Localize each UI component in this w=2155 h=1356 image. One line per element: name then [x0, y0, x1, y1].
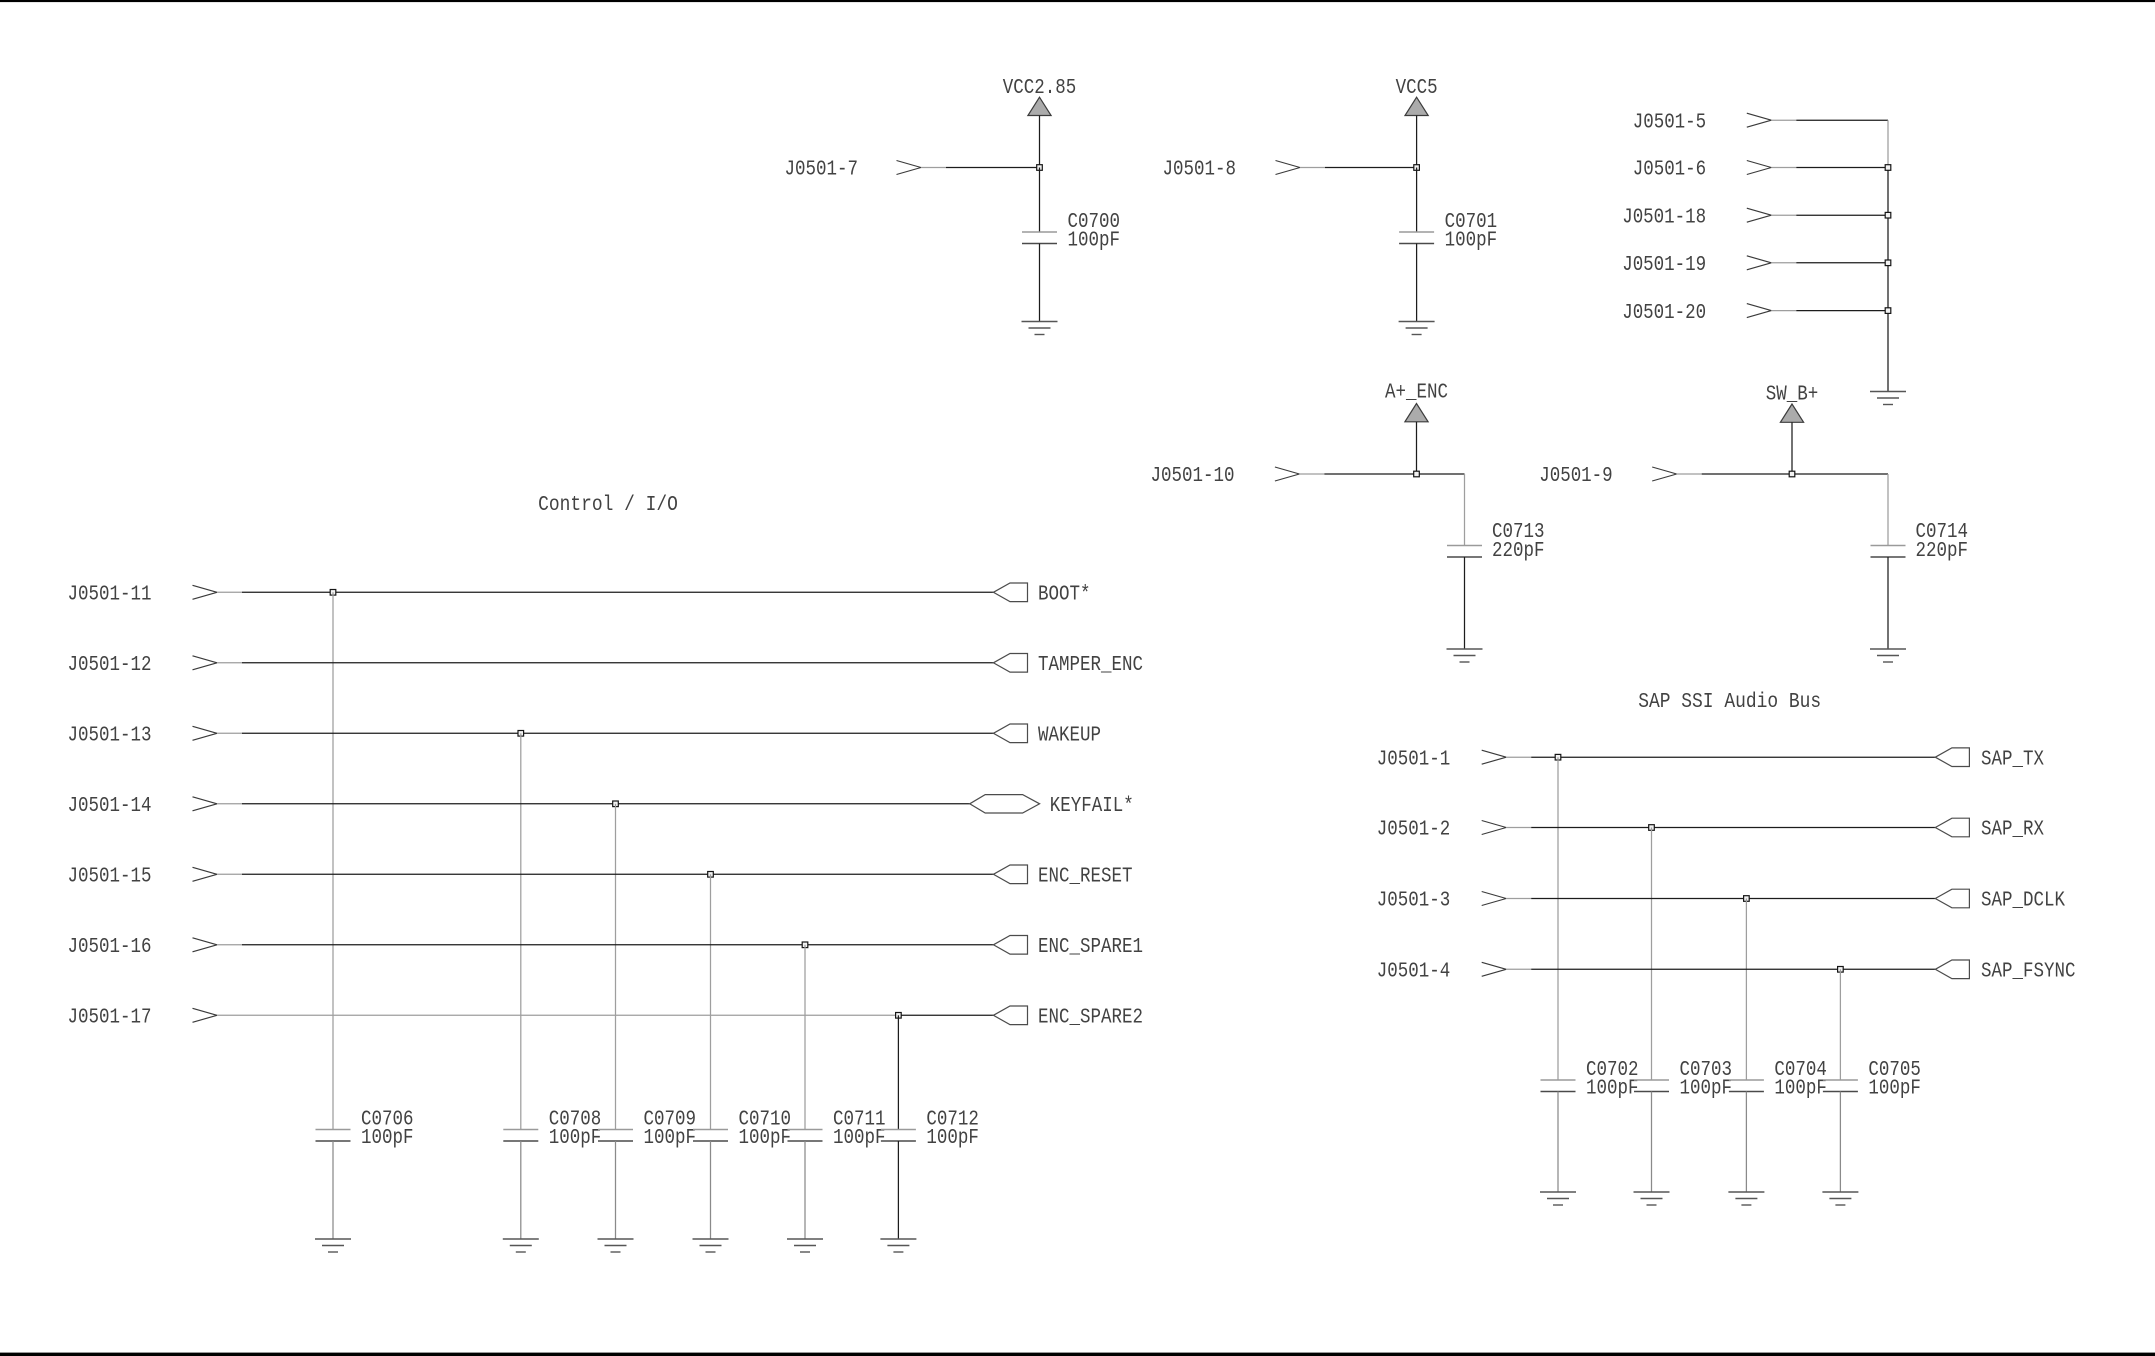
wire J0501-5 to ground bus — [1771, 119, 1888, 121]
node SAP_TX junction — [1555, 754, 1561, 760]
pin J0501-18 — [1622, 206, 1771, 229]
wire J0501-18 to ground bus — [1771, 214, 1888, 216]
svg-text:J0501-8: J0501-8 — [1163, 159, 1237, 182]
svg-text:J0501-15: J0501-15 — [68, 866, 152, 889]
capacitor C0705 — [1823, 1059, 1921, 1101]
wire J0501-14 to KEYFAIL* flag — [217, 803, 970, 805]
wire J0501-19 to ground bus — [1771, 262, 1888, 264]
wire junction to ENC_SPARE2 flag — [898, 1014, 993, 1016]
wire tap down (gray) x=1558.0 — [1557, 757, 1559, 1080]
svg-text:SAP_RX: SAP_RX — [1981, 819, 2044, 842]
pin J0501-16 — [68, 936, 218, 959]
node SAP_DCLK junction — [1744, 896, 1750, 902]
svg-text:J0501-3: J0501-3 — [1377, 890, 1451, 913]
node J0501-6 junction — [1885, 165, 1891, 171]
wire tap down (gray) x=1746.4 — [1745, 899, 1747, 1081]
svg-text:J0501-4: J0501-4 — [1377, 961, 1451, 984]
capacitor C0714 — [1871, 521, 1969, 563]
wire SW_B+ stem — [1791, 422, 1793, 474]
node VCC5 junction — [1414, 165, 1420, 171]
sheet bottom border — [0, 1353, 2155, 1356]
svg-text:J0501-14: J0501-14 — [68, 795, 152, 818]
svg-text:SAP_FSYNC: SAP_FSYNC — [1981, 961, 2076, 984]
pin J0501-11 — [68, 584, 218, 607]
capacitor C0712 — [881, 1109, 979, 1151]
wire J0501-17 to junction (gray) — [217, 1014, 898, 1016]
ground — [1399, 322, 1435, 335]
wire C0710 to ground — [710, 1141, 712, 1239]
wire J0501-9 to bend — [1677, 473, 1888, 475]
pin J0501-17 — [68, 1007, 218, 1030]
pin J0501-3 — [1377, 890, 1506, 913]
ground — [1022, 322, 1058, 335]
ground — [315, 1239, 351, 1252]
wire J0501-11 to BOOT* flag — [217, 591, 993, 593]
power symbol A+_ENC — [1385, 382, 1448, 422]
svg-text:J0501-2: J0501-2 — [1377, 819, 1451, 842]
svg-text:A+_ENC: A+_ENC — [1385, 382, 1448, 405]
ground — [1634, 1192, 1670, 1205]
wire J0501-15 to ENC_RESET flag — [217, 873, 993, 875]
wire tap down (gray) x=1840.4 — [1839, 969, 1841, 1080]
svg-text:J0501-10: J0501-10 — [1151, 465, 1235, 488]
svg-text:100pF: 100pF — [1680, 1078, 1733, 1101]
capacitor C0713 — [1447, 521, 1545, 563]
capacitor C0703 — [1634, 1059, 1732, 1101]
svg-text:100pF: 100pF — [739, 1127, 792, 1150]
node J0501-18 junction — [1885, 212, 1891, 218]
pin J0501-10 — [1151, 465, 1300, 488]
svg-text:100pF: 100pF — [833, 1127, 886, 1150]
wire J0501-8 to VCC5 node — [1300, 167, 1417, 169]
svg-text:KEYFAIL*: KEYFAIL* — [1050, 795, 1134, 818]
net flag ENC_SPARE2 — [993, 1006, 1143, 1030]
node SAP_FSYNC junction — [1838, 967, 1844, 973]
wire J0501-10 to bend — [1299, 473, 1464, 475]
wire C0712 to ground — [897, 1141, 899, 1239]
net flag ENC_SPARE1 — [993, 936, 1143, 960]
ground — [598, 1239, 634, 1252]
wire J0501-2 to SAP_RX flag — [1506, 827, 1935, 829]
node J0501-19 junction — [1885, 260, 1891, 266]
svg-text:100pF: 100pF — [926, 1127, 979, 1150]
svg-text:100pF: 100pF — [1068, 230, 1121, 253]
ground — [1822, 1192, 1858, 1205]
node SW_B+ junction — [1789, 471, 1795, 477]
capacitor C0700 — [1022, 211, 1120, 253]
net flag SAP_DCLK — [1935, 889, 2065, 913]
wire VCC5 stem — [1416, 116, 1418, 168]
pin J0501-7 — [785, 159, 922, 182]
wire J0501-16 to ENC_SPARE1 flag — [217, 944, 993, 946]
wire C0714 to ground — [1887, 557, 1889, 649]
capacitor C0708 — [503, 1109, 601, 1151]
wire tap down (gray) x=520.8 — [520, 733, 522, 1129]
pin J0501-1 — [1377, 748, 1506, 771]
svg-text:ENC_RESET: ENC_RESET — [1038, 866, 1133, 889]
svg-text:SAP_TX: SAP_TX — [1981, 748, 2044, 771]
wire J0501-4 to SAP_FSYNC flag — [1506, 968, 1935, 970]
capacitor C0702 — [1541, 1059, 1639, 1101]
svg-text:100pF: 100pF — [1445, 230, 1498, 253]
capacitor C0710 — [693, 1109, 791, 1151]
pin J0501-20 — [1622, 302, 1771, 325]
wire tap down (gray) x=805.0 — [804, 945, 806, 1130]
wire tap down (gray) x=1651.5 — [1651, 828, 1653, 1081]
pin J0501-4 — [1377, 961, 1506, 984]
svg-text:100pF: 100pF — [1868, 1078, 1921, 1101]
wire C0703 to ground — [1651, 1092, 1653, 1193]
node ENC_SPARE2 junction — [896, 1013, 902, 1019]
wire VCC2.85 stem — [1039, 116, 1041, 168]
net flag ENC_RESET — [993, 865, 1132, 889]
svg-text:220pF: 220pF — [1492, 540, 1545, 563]
wire tap down x=898.4 — [897, 1015, 899, 1129]
svg-text:100pF: 100pF — [644, 1127, 697, 1150]
node ENC_RESET junction — [708, 872, 714, 878]
wire node to C0700 — [1039, 168, 1041, 233]
net flag SAP_RX — [1935, 818, 2044, 842]
svg-text:220pF: 220pF — [1916, 540, 1969, 563]
svg-text:J0501-12: J0501-12 — [68, 654, 152, 677]
wire A+_ENC stem — [1416, 422, 1418, 474]
pin J0501-15 — [68, 866, 218, 889]
power symbol VCC2.85 — [1003, 77, 1077, 116]
svg-text:J0501-5: J0501-5 — [1633, 111, 1707, 134]
svg-text:J0501-17: J0501-17 — [68, 1007, 152, 1030]
ground — [503, 1239, 539, 1252]
node BOOT* junction — [330, 590, 336, 596]
ground — [1447, 649, 1483, 662]
wire tap down (gray) x=615.5 — [615, 804, 617, 1130]
wire tap down (gray) x=333.0 — [332, 592, 334, 1129]
net flag TAMPER_ENC — [993, 654, 1143, 678]
node ENC_SPARE1 junction — [802, 942, 808, 948]
net flag WAKEUP — [993, 724, 1101, 748]
wire C0701 to ground — [1416, 244, 1418, 322]
svg-text:BOOT*: BOOT* — [1038, 584, 1091, 607]
pin J0501-13 — [68, 725, 218, 748]
svg-text:ENC_SPARE2: ENC_SPARE2 — [1038, 1007, 1143, 1030]
svg-text:J0501-19: J0501-19 — [1622, 254, 1706, 277]
wire J0501-12 to TAMPER_ENC flag — [217, 662, 993, 664]
svg-text:J0501-16: J0501-16 — [68, 936, 152, 959]
net flag SAP_TX — [1935, 748, 2044, 772]
svg-text:SW_B+: SW_B+ — [1766, 383, 1819, 406]
wire ground bus vertical top (gray) — [1887, 120, 1889, 167]
capacitor C0711 — [788, 1109, 886, 1151]
pin J0501-14 — [68, 795, 218, 818]
wire J0501-6 to ground bus — [1771, 167, 1888, 169]
ground — [1540, 1192, 1576, 1205]
sheet top border — [0, 0, 2155, 2]
ground — [693, 1239, 729, 1252]
wire J0501-3 to SAP_DCLK flag — [1506, 898, 1935, 900]
wire C0702 to ground — [1557, 1092, 1559, 1193]
wire C0700 to ground — [1039, 244, 1041, 322]
wire node to C0701 — [1416, 168, 1418, 233]
capacitor C0709 — [598, 1109, 696, 1151]
svg-text:J0501-13: J0501-13 — [68, 725, 152, 748]
ground — [1870, 392, 1906, 405]
power symbol VCC5 — [1396, 77, 1438, 116]
capacitor C0704 — [1729, 1059, 1827, 1101]
pin J0501-9 — [1539, 465, 1677, 488]
svg-text:J0501-1: J0501-1 — [1377, 748, 1451, 771]
net flag SAP_FSYNC — [1935, 960, 2075, 984]
svg-text:ENC_SPARE1: ENC_SPARE1 — [1038, 936, 1143, 959]
ground — [1870, 649, 1906, 662]
svg-text:100pF: 100pF — [361, 1127, 414, 1150]
capacitor C0706 — [316, 1109, 414, 1151]
node WAKEUP junction — [518, 731, 524, 737]
svg-text:SAP_DCLK: SAP_DCLK — [1981, 890, 2065, 913]
wire C0708 to ground — [520, 1141, 522, 1239]
ground — [1728, 1192, 1764, 1205]
node J0501-20 junction — [1885, 308, 1891, 314]
svg-text:J0501-9: J0501-9 — [1539, 465, 1613, 488]
power symbol SW_B+ — [1766, 383, 1819, 422]
wire C0706 to ground — [332, 1141, 334, 1239]
node KEYFAIL* junction — [613, 801, 619, 807]
svg-text:J0501-11: J0501-11 — [68, 584, 152, 607]
pin J0501-2 — [1377, 819, 1506, 842]
svg-text:J0501-6: J0501-6 — [1633, 159, 1707, 182]
pin J0501-5 — [1633, 111, 1772, 134]
svg-text:100pF: 100pF — [1774, 1078, 1827, 1101]
net flag BOOT* — [993, 583, 1090, 607]
ground — [880, 1239, 916, 1252]
svg-text:J0501-18: J0501-18 — [1622, 206, 1706, 229]
pin J0501-8 — [1163, 159, 1301, 182]
pin J0501-19 — [1622, 254, 1771, 277]
wire C0713 to ground — [1464, 557, 1466, 649]
svg-text:TAMPER_ENC: TAMPER_ENC — [1038, 654, 1143, 677]
ground — [787, 1239, 823, 1252]
net flag KEYFAIL* — [970, 795, 1134, 818]
svg-text:WAKEUP: WAKEUP — [1038, 725, 1101, 748]
wire J0501-7 to VCC2.85 node — [921, 167, 1040, 169]
svg-text:100pF: 100pF — [1586, 1078, 1639, 1101]
wire bend down to C0713 (gray) — [1464, 474, 1466, 546]
svg-text:100pF: 100pF — [549, 1127, 602, 1150]
node A+_ENC junction — [1414, 471, 1420, 477]
svg-text:SAP SSI Audio Bus: SAP SSI Audio Bus — [1638, 691, 1821, 714]
wire J0501-20 to ground bus — [1771, 310, 1888, 312]
pin J0501-12 — [68, 654, 218, 677]
wire bend down to C0714 (gray) — [1887, 474, 1889, 546]
wire J0501-13 to WAKEUP flag — [217, 732, 993, 734]
wire C0704 to ground — [1745, 1092, 1747, 1193]
svg-text:J0501-7: J0501-7 — [785, 159, 859, 182]
wire tap down (gray) x=710.5 — [710, 874, 712, 1129]
node VCC2.85 junction — [1037, 165, 1043, 171]
wire C0709 to ground — [615, 1141, 617, 1239]
svg-text:Control / I/O: Control / I/O — [538, 494, 678, 517]
node SAP_RX junction — [1649, 825, 1655, 831]
wire C0711 to ground — [804, 1141, 806, 1239]
capacitor C0701 — [1399, 211, 1497, 253]
wire C0705 to ground — [1839, 1092, 1841, 1193]
wire J0501-1 to SAP_TX flag — [1506, 756, 1935, 758]
pin J0501-6 — [1633, 159, 1772, 182]
wire ground bus vertical — [1887, 168, 1889, 392]
svg-text:J0501-20: J0501-20 — [1622, 302, 1706, 325]
